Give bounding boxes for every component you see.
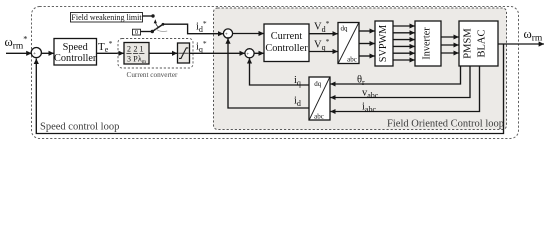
wire: i_q feedback to J3 <box>250 58 310 85</box>
svg-text:Controller: Controller <box>54 53 97 64</box>
block: Inverter <box>415 21 441 66</box>
wire: i_abc feedback <box>330 66 479 112</box>
block: Current Controller <box>264 24 309 62</box>
switch motion arrow <box>154 19 157 23</box>
svg-text:Inverter: Inverter <box>422 27 433 60</box>
svg-text:dq: dq <box>314 80 322 88</box>
svg-text:dq: dq <box>341 25 349 33</box>
wire: J2 to Current Controller <box>233 33 264 35</box>
wire: zero to switch contact <box>141 31 153 33</box>
svg-text:ωrm*: ωrm* <box>5 34 28 52</box>
switch contact dot (upper) <box>151 14 154 17</box>
svg-text:1: 1 <box>140 45 144 54</box>
block: dq to abc transform <box>338 23 359 64</box>
svg-text:ωrm: ωrm <box>524 27 543 44</box>
speed control loop dashed boundary <box>32 7 519 139</box>
svg-text:Te*: Te* <box>98 39 113 54</box>
block: PMSM BLAC motor <box>459 21 498 66</box>
svg-text:Speed control loop: Speed control loop <box>40 122 119 133</box>
wire: speed output omega_rm <box>498 43 544 45</box>
block: Field weakening limit <box>71 13 143 23</box>
wire: iq* to J3 <box>190 52 245 54</box>
wire: theta_r feedback from motor <box>330 66 460 84</box>
svg-text:2: 2 <box>134 45 138 54</box>
switch motion arc <box>155 28 167 31</box>
svg-text:Field Oriented Control loop: Field Oriented Control loop <box>387 119 504 130</box>
wire: J3 to Current Controller <box>254 52 264 54</box>
svg-text:Field weakening limit: Field weakening limit <box>71 13 142 22</box>
block: torque-to-current gain (2/3)(2/P)(1/lambda_m) <box>124 43 149 65</box>
block: Speed Controller <box>54 39 97 66</box>
svg-text:Controller: Controller <box>265 43 308 54</box>
wire: v_abc feedback <box>330 66 470 98</box>
wires: SVPWM to Inverter (6 gate signals) <box>393 25 415 27</box>
summing junction J3 (q-axis) <box>245 49 254 58</box>
svg-text:id*: id* <box>196 19 207 34</box>
wire: speed feedback (drop from output line, along bottom, up to J1) <box>36 44 503 134</box>
svg-text:0: 0 <box>135 29 138 36</box>
svg-text:PMSM: PMSM <box>463 28 474 59</box>
switch contact dot (lower) <box>151 30 154 33</box>
svg-text:Current converter: Current converter <box>127 71 178 79</box>
wire: i_d feedback to J2 <box>228 38 309 108</box>
current converter dashed group box <box>118 39 193 69</box>
svg-text:3: 3 <box>127 55 131 64</box>
wires: Inverter to PMSM (3 phases) <box>441 36 459 38</box>
wire: J1 to Speed Controller <box>42 52 54 54</box>
block: zero constant <box>133 29 141 35</box>
svg-text:Speed: Speed <box>63 42 89 53</box>
block: saturation limiter <box>178 43 190 63</box>
svg-text:SVPWM: SVPWM <box>378 25 389 62</box>
svg-text:BLAC: BLAC <box>477 29 488 57</box>
wires: dq/abc to SVPWM (3 phases) <box>359 30 375 32</box>
block: abc to dq transform (feedback) <box>309 77 330 120</box>
wire: Te* to current converter <box>97 52 124 54</box>
summing junction J1 (speed) <box>31 48 41 58</box>
wire: id* from switch to J2 (with jog) <box>163 24 223 34</box>
summing junction J2 (d-axis) <box>223 29 232 38</box>
svg-text:Current: Current <box>271 31 303 42</box>
svg-text:2: 2 <box>127 45 131 54</box>
wire: speed reference input <box>6 52 32 54</box>
wire: Vd* to dq/abc <box>309 33 338 35</box>
wire: field weakening limit to switch contact <box>143 15 154 17</box>
Field Oriented Control loop shaded region <box>214 8 507 130</box>
wire: Vq* to dq/abc <box>309 51 338 53</box>
svg-text:abc: abc <box>347 56 357 64</box>
svg-text:iq*: iq* <box>196 39 207 54</box>
switch arm <box>152 24 163 31</box>
wire: gain to limiter <box>149 52 177 54</box>
svg-text:abc: abc <box>314 113 324 121</box>
block: SVPWM <box>375 21 393 66</box>
